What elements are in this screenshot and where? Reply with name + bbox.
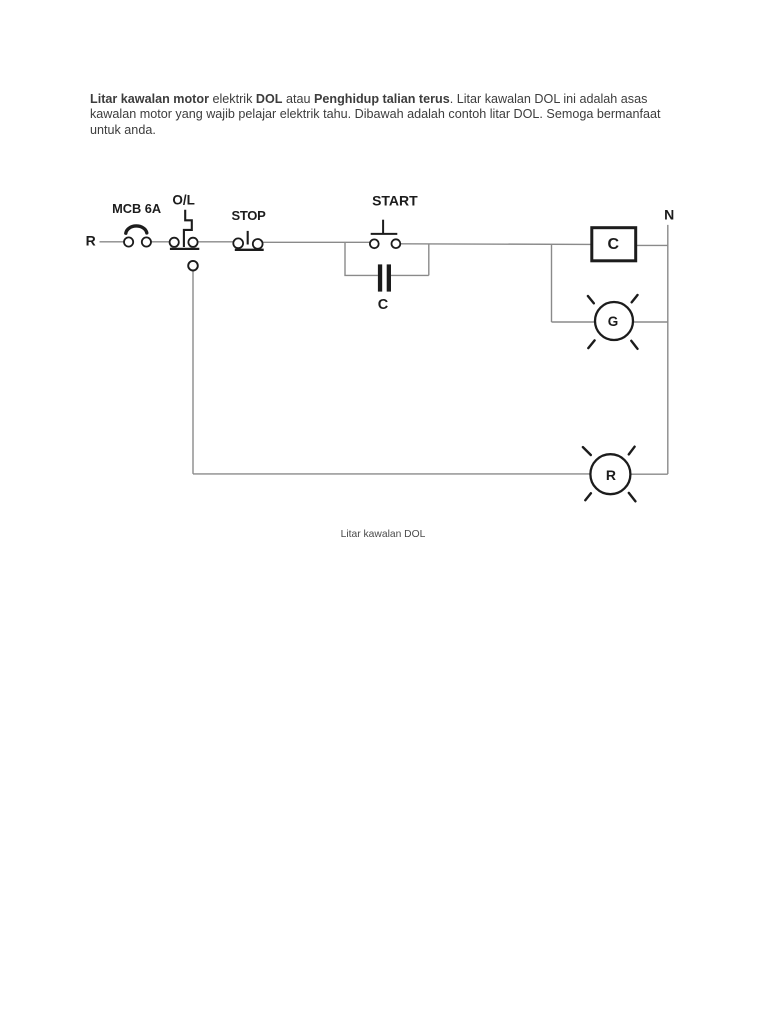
svg-text:N: N xyxy=(664,207,674,223)
svg-text:R: R xyxy=(606,467,616,483)
svg-text:R: R xyxy=(86,232,96,248)
svg-text:STOP: STOP xyxy=(232,208,267,223)
svg-text:G: G xyxy=(608,314,619,329)
svg-text:MCB 6A: MCB 6A xyxy=(112,201,161,216)
svg-text:C: C xyxy=(608,236,620,253)
svg-text:O/L: O/L xyxy=(172,193,195,208)
svg-text:C: C xyxy=(378,297,389,313)
svg-text:START: START xyxy=(372,193,418,209)
